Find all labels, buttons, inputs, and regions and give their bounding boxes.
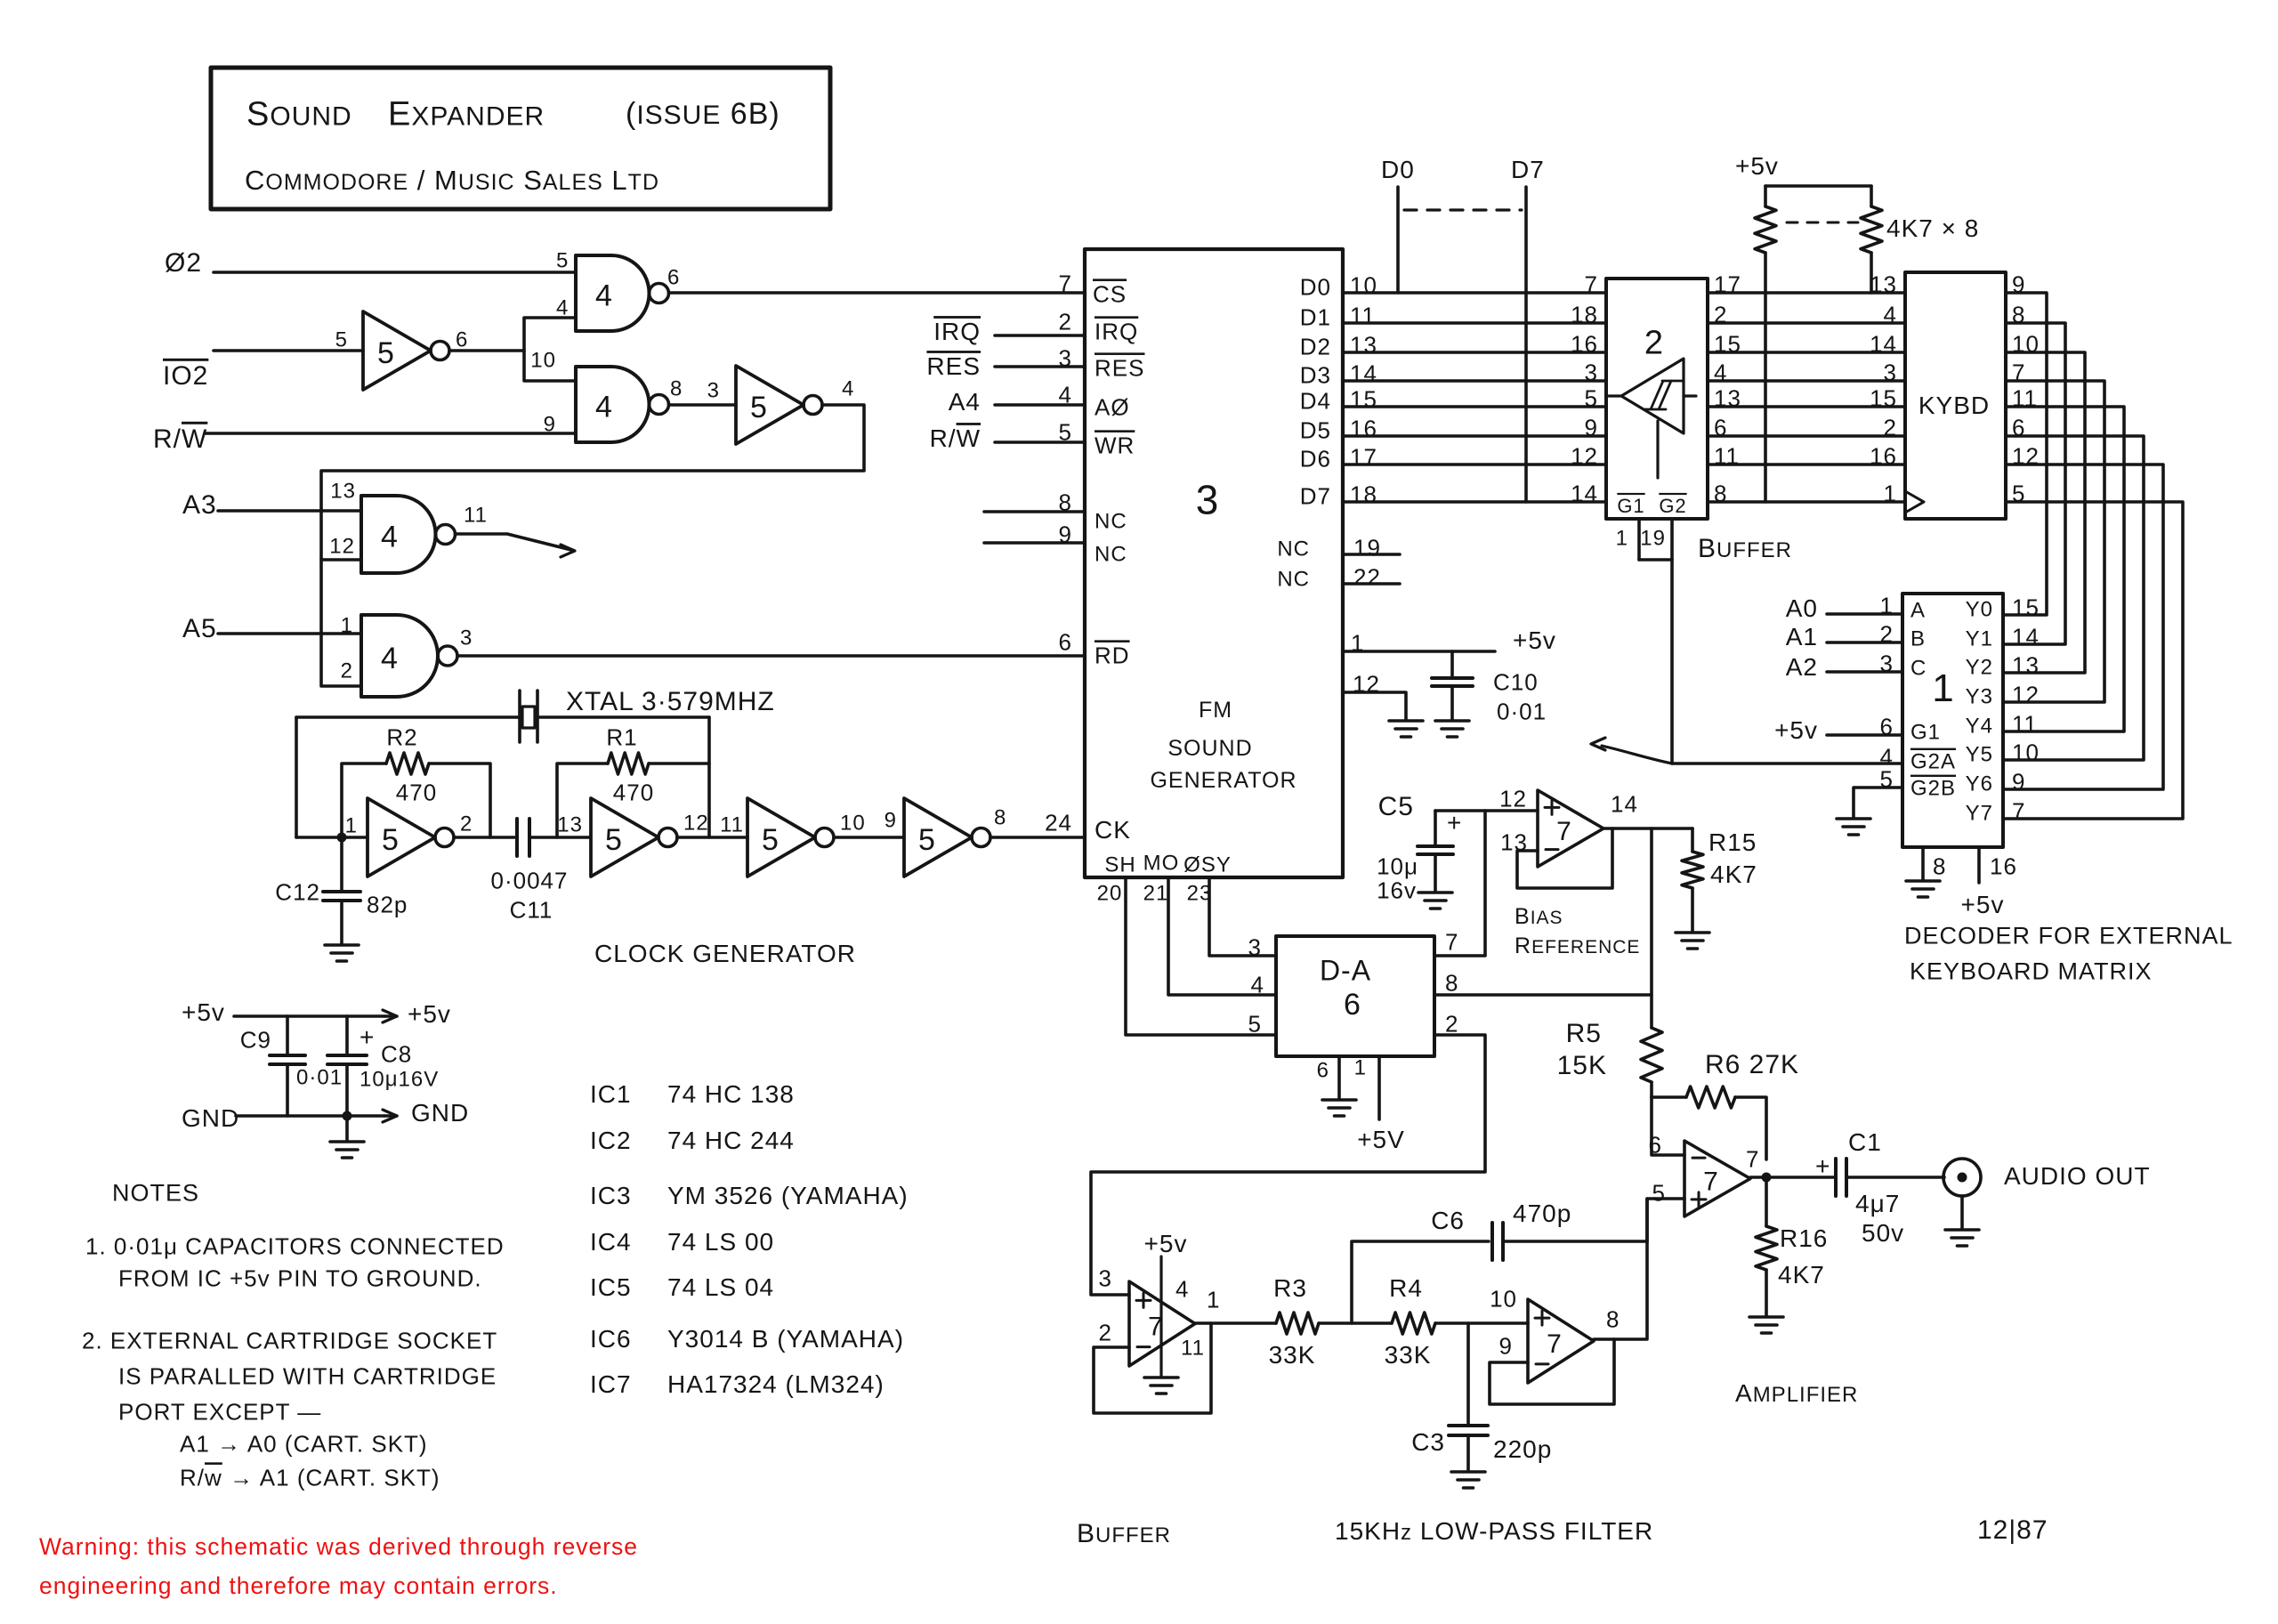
capacitor C12 82p — [340, 837, 343, 890]
dashed link between pullups — [1787, 222, 1858, 224]
wire A3 to U4c pin13 — [218, 509, 361, 513]
buffer pin11 ground — [1144, 1376, 1178, 1379]
svg-text:A1: A1 — [1786, 623, 1818, 650]
svg-text:22: 22 — [1353, 563, 1381, 590]
svg-text:10: 10 — [840, 812, 866, 836]
wire U5b output to WR net and A-gates rail — [321, 405, 864, 686]
connector KYBD body — [1905, 272, 2006, 519]
svg-text:C9: C9 — [240, 1026, 271, 1053]
clock feedback top rail — [296, 715, 520, 719]
wire U5d to U5e — [677, 836, 747, 839]
svg-text:C: C — [1910, 657, 1927, 681]
svg-text:Y5: Y5 — [1966, 743, 1993, 767]
resistor pack 4K7 x8 right — [1870, 186, 1873, 206]
svg-text:2: 2 — [1099, 1319, 1112, 1345]
op-amp U7d amplifier — [1684, 1141, 1750, 1216]
svg-text:IRQ: IRQ — [933, 318, 981, 345]
svg-text:4: 4 — [595, 279, 613, 313]
capacitor C9 0.01 — [286, 1016, 289, 1054]
svg-text:IS PARALLED WITH CARTRIDGE: IS PARALLED WITH CARTRIDGE — [118, 1362, 497, 1389]
inverter U5e — [747, 798, 815, 877]
svg-text:1: 1 — [1616, 527, 1628, 551]
svg-text:5: 5 — [1652, 1179, 1666, 1206]
svg-text:74 LS 04: 74 LS 04 — [667, 1273, 774, 1301]
svg-text:10μ: 10μ — [1377, 852, 1418, 879]
svg-text:IRQ: IRQ — [1095, 318, 1138, 344]
svg-text:AUDIO OUT: AUDIO OUT — [2004, 1162, 2151, 1190]
buffer feedback loop — [1094, 1323, 1211, 1413]
svg-text:5: 5 — [1585, 384, 1598, 411]
wire R5 to amp -input — [1652, 1097, 1684, 1155]
svg-text:5: 5 — [762, 823, 780, 857]
svg-text:Y6: Y6 — [1966, 772, 1993, 796]
wire DA pin2 to buffer opamp +input — [1091, 1035, 1485, 1295]
svg-text:13: 13 — [1870, 271, 1897, 297]
svg-text:15: 15 — [1350, 385, 1377, 412]
capacitor C5 10u 16v — [1434, 811, 1437, 844]
svg-text:74 LS 00: 74 LS 00 — [667, 1228, 774, 1256]
svg-text:IC6: IC6 — [590, 1325, 632, 1353]
wire bias output — [1603, 827, 1692, 830]
wire A5 to U4d pin1 — [218, 632, 361, 635]
svg-text:YM 3526 (YAMAHA): YM 3526 (YAMAHA) — [667, 1182, 909, 1209]
svg-text:5: 5 — [918, 823, 936, 857]
svg-text:REFERENCE: REFERENCE — [1515, 933, 1640, 958]
svg-text:1: 1 — [1354, 1056, 1367, 1080]
wire U5c out to C11 — [454, 836, 514, 839]
resistor R2 470 feedback — [342, 764, 386, 837]
svg-text:D5: D5 — [1300, 416, 1331, 443]
svg-text:A4: A4 — [949, 388, 981, 416]
svg-text:4μ7: 4μ7 — [1855, 1190, 1900, 1217]
svg-text:R6 27K: R6 27K — [1705, 1050, 1799, 1079]
svg-text:0·01: 0·01 — [296, 1066, 343, 1090]
crystal XTAL 3.579MHz — [518, 691, 521, 742]
svg-text:10: 10 — [1490, 1285, 1517, 1312]
svg-text:Warning: this schematic was de: Warning: this schematic was derived thro… — [39, 1533, 638, 1560]
buffer enable pins 1 and 19 — [1637, 519, 1641, 560]
svg-text:NC: NC — [1095, 510, 1127, 534]
wire C1 to audio jack — [1846, 1176, 1944, 1179]
NAND U4b (74LS00) — [576, 367, 650, 442]
wire MO pin21 to DA pin4 — [1168, 877, 1276, 995]
svg-text:14: 14 — [2012, 623, 2040, 650]
svg-text:R/W: R/W — [930, 424, 981, 452]
svg-text:14: 14 — [1571, 480, 1598, 506]
wire left rail to node 1 — [296, 836, 368, 839]
svg-text:11: 11 — [1181, 1337, 1205, 1361]
svg-text:8: 8 — [670, 377, 683, 401]
svg-text:+5v: +5v — [182, 998, 225, 1026]
svg-text:5: 5 — [1248, 1010, 1262, 1037]
svg-text:SOUND: SOUND — [1167, 736, 1252, 761]
svg-text:16: 16 — [1350, 415, 1377, 441]
NAND U4c (74LS00) — [361, 496, 436, 573]
svg-text:82p: 82p — [367, 891, 408, 917]
resistor R6 27K feedback — [1652, 1095, 1686, 1099]
svg-text:R5: R5 — [1566, 1019, 1602, 1048]
svg-text:D7: D7 — [1511, 156, 1545, 183]
svg-text:IC4: IC4 — [590, 1228, 632, 1256]
svg-text:D3: D3 — [1300, 361, 1331, 388]
wire buffer enable to decoder G2A — [1670, 560, 1674, 764]
svg-text:FROM IC +5v PIN TO GROUND: FROM IC +5v PIN TO GROUND. — [118, 1264, 482, 1291]
inverter U5f — [904, 798, 972, 877]
svg-text:13: 13 — [330, 480, 356, 504]
op-amp U7a bias reference — [1538, 790, 1603, 867]
svg-text:8: 8 — [994, 806, 1006, 830]
wire bias +input pin12 — [1435, 809, 1538, 812]
svg-text:14: 14 — [1350, 360, 1377, 386]
svg-text:9: 9 — [1499, 1332, 1513, 1359]
pullup rail — [1765, 184, 1871, 188]
svg-text:5: 5 — [335, 328, 348, 352]
svg-text:4: 4 — [842, 377, 854, 401]
wires KYBD to decoder Y outputs — [2003, 293, 2047, 615]
svg-text:7: 7 — [1585, 271, 1598, 297]
wire phi2 to U4a pin5 — [214, 271, 576, 274]
svg-text:GENERATOR: GENERATOR — [1150, 768, 1297, 793]
svg-text:ØSY: ØSY — [1183, 853, 1232, 877]
svg-text:220p: 220p — [1493, 1435, 1552, 1463]
wire filter out to amp +input — [1594, 1199, 1647, 1339]
svg-text:KYBD: KYBD — [1919, 392, 1990, 419]
svg-text:2: 2 — [341, 659, 353, 683]
svg-text:5: 5 — [377, 336, 395, 370]
svg-text:6: 6 — [1317, 1059, 1329, 1083]
svg-text:4: 4 — [381, 642, 399, 675]
svg-text:50v: 50v — [1862, 1219, 1904, 1247]
svg-text:+5v: +5v — [1774, 716, 1818, 744]
svg-text:7: 7 — [1746, 1145, 1759, 1172]
svg-text:16v: 16v — [1377, 877, 1417, 903]
svg-text:9: 9 — [1585, 414, 1598, 440]
wire SH pin20 to DA pin5 — [1126, 877, 1276, 1035]
svg-text:18: 18 — [1350, 481, 1377, 507]
svg-text:+: + — [359, 1023, 375, 1051]
svg-text:12: 12 — [683, 812, 709, 836]
svg-text:1. 0·01μ CAPACITORS CONNECT: 1. 0·01μ CAPACITORS CONNECTED — [85, 1232, 505, 1259]
svg-text:4: 4 — [1251, 971, 1264, 998]
wire bias to R5 — [1650, 828, 1653, 1028]
svg-text:3: 3 — [1099, 1264, 1112, 1291]
svg-text:PORT EXCEPT —: PORT EXCEPT — — [118, 1398, 321, 1425]
svg-text:15: 15 — [1870, 384, 1897, 411]
svg-text:15: 15 — [2012, 594, 2040, 620]
svg-text:Y2: Y2 — [1966, 656, 1993, 680]
svg-text:G2B: G2B — [1910, 777, 1956, 801]
audio out jack — [1943, 1159, 1981, 1196]
svg-text:5: 5 — [382, 823, 400, 857]
svg-text:1: 1 — [1207, 1286, 1220, 1313]
svg-text:19: 19 — [1353, 534, 1381, 561]
svg-text:EXPANDER: EXPANDER — [388, 96, 545, 133]
svg-text:R15: R15 — [1708, 828, 1757, 856]
svg-text:D-A: D-A — [1320, 955, 1371, 987]
svg-text:A0: A0 — [1786, 594, 1818, 622]
svg-text:Y4: Y4 — [1966, 715, 1993, 739]
svg-text:4K7: 4K7 — [1710, 860, 1757, 888]
decoder pin 8 ground — [1921, 847, 1925, 879]
svg-text:12: 12 — [1571, 442, 1598, 469]
svg-text:5: 5 — [556, 249, 569, 273]
svg-text:470: 470 — [396, 779, 437, 805]
svg-text:C10: C10 — [1493, 668, 1539, 695]
svg-text:13: 13 — [1350, 331, 1377, 358]
svg-text:G1: G1 — [1617, 495, 1644, 517]
svg-text:A: A — [1910, 599, 1926, 623]
svg-text:8: 8 — [1445, 969, 1458, 996]
svg-text:18: 18 — [1571, 301, 1598, 327]
svg-text:Y0: Y0 — [1966, 598, 1993, 622]
IC3 NC pin 9 stub — [984, 541, 1085, 545]
wire IO2 to U5a input — [214, 349, 363, 352]
svg-text:2: 2 — [1884, 414, 1897, 440]
wire stub to U4c pin12 — [321, 558, 361, 562]
svg-text:4: 4 — [381, 521, 399, 554]
svg-text:R/W: R/W — [153, 424, 207, 454]
svg-text:KEYBOARD MATRIX: KEYBOARD MATRIX — [1910, 958, 2153, 985]
title box — [211, 68, 830, 209]
IC U2 74HC244 buffer body — [1606, 279, 1708, 519]
svg-text:6: 6 — [667, 266, 680, 290]
buffer schmitt symbol — [1621, 359, 1684, 433]
svg-text:1: 1 — [1884, 480, 1897, 506]
svg-text:R/w → A1 (CART. SKT): R/w → A1 (CART. SKT) — [180, 1464, 440, 1491]
resistor R5 15K — [1641, 1028, 1662, 1082]
svg-text:16: 16 — [1571, 330, 1598, 357]
resistor pack 4K7 x8 left — [1764, 186, 1767, 206]
svg-text:2: 2 — [1059, 308, 1072, 335]
wire U5e to U5f — [834, 836, 904, 839]
svg-text:D0: D0 — [1381, 156, 1415, 183]
inverter U5d — [591, 798, 658, 877]
svg-text:GND: GND — [411, 1099, 469, 1127]
svg-text:74 HC 138: 74 HC 138 — [667, 1080, 795, 1108]
svg-text:12: 12 — [1499, 785, 1527, 812]
svg-text:33K: 33K — [1269, 1341, 1316, 1369]
svg-text:CS: CS — [1093, 280, 1127, 307]
svg-text:0·01: 0·01 — [1497, 698, 1547, 724]
capacitor C11 0.0047 — [515, 819, 519, 856]
svg-text:9: 9 — [885, 809, 897, 833]
svg-text:A1 → A0 (CART. SKT): A1 → A0 (CART. SKT) — [180, 1430, 428, 1457]
svg-text:4: 4 — [595, 391, 613, 424]
IC U3 YM3526 FM sound generator body — [1085, 249, 1343, 877]
svg-text:11: 11 — [464, 504, 488, 528]
wire U4a output to IC3 CS pin 7 — [669, 291, 1086, 295]
svg-text:8: 8 — [1933, 852, 1946, 879]
svg-text:6: 6 — [1344, 988, 1361, 1022]
decoder pin 16 +5v — [1977, 847, 1981, 883]
svg-text:12: 12 — [329, 535, 355, 559]
svg-text:7: 7 — [1445, 928, 1458, 955]
wire U4b output to U5b input — [669, 403, 737, 407]
svg-text:G1: G1 — [1910, 721, 1941, 745]
svg-text:11: 11 — [1350, 302, 1376, 328]
svg-text:470: 470 — [613, 779, 654, 805]
svg-text:C6: C6 — [1431, 1207, 1465, 1234]
svg-text:1: 1 — [345, 814, 358, 838]
capacitor C10 0.01 — [1450, 651, 1454, 676]
svg-text:20: 20 — [1097, 882, 1123, 906]
svg-text:R16: R16 — [1780, 1224, 1828, 1252]
svg-text:CLOCK GENERATOR: CLOCK GENERATOR — [594, 940, 856, 967]
svg-text:C3: C3 — [1411, 1428, 1445, 1456]
wire DA pin8 to R5 top — [1434, 993, 1652, 997]
capacitor C8 10u16V electrolytic — [345, 1016, 349, 1054]
bus wires buffer to KYBD — [1708, 291, 1905, 295]
DA pin1 +5v — [1377, 1056, 1381, 1119]
svg-text:BIAS: BIAS — [1515, 904, 1563, 929]
svg-text:16: 16 — [1870, 442, 1897, 469]
svg-text:10μ16V: 10μ16V — [359, 1068, 439, 1092]
svg-text:16: 16 — [1990, 852, 2017, 879]
svg-text:12: 12 — [2012, 681, 2040, 707]
wire R/W to U4b pin9 — [205, 432, 576, 435]
svg-text:Y1: Y1 — [1966, 627, 1993, 651]
svg-text:R2: R2 — [386, 723, 417, 750]
capacitor C6 470p loop — [1352, 1241, 1489, 1323]
svg-text:IC3: IC3 — [590, 1182, 632, 1209]
svg-text:0·0047: 0·0047 — [491, 867, 569, 893]
svg-text:33K: 33K — [1385, 1341, 1432, 1369]
wire G2B to ground — [1854, 788, 1902, 817]
wire G2A with arrow — [1672, 762, 1902, 765]
svg-text:NC: NC — [1277, 537, 1310, 562]
junction node at U5c input — [337, 833, 347, 843]
svg-text:+5v: +5v — [408, 1000, 451, 1028]
wire OSY pin23 to DA pin3 — [1209, 877, 1276, 956]
svg-text:74 HC 244: 74 HC 244 — [667, 1127, 795, 1154]
svg-text:5: 5 — [605, 823, 623, 857]
svg-text:10: 10 — [530, 349, 556, 373]
svg-text:2. EXTERNAL CARTRIDGE SOCKE: 2. EXTERNAL CARTRIDGE SOCKET — [82, 1327, 497, 1353]
svg-text:C1: C1 — [1848, 1128, 1882, 1156]
KYBD clock mark pin1 — [1905, 491, 1924, 513]
inverter U5a (74LS04) — [363, 311, 431, 390]
svg-text:24: 24 — [1045, 809, 1072, 836]
IC U6 Y3014B D-A body — [1276, 936, 1434, 1056]
wire R3 to R4 — [1319, 1321, 1392, 1325]
svg-text:HA17324 (LM324): HA17324 (LM324) — [667, 1370, 885, 1398]
svg-text:IO2: IO2 — [163, 361, 208, 391]
svg-text:D0: D0 — [1300, 273, 1331, 300]
svg-text:G2: G2 — [1659, 495, 1686, 517]
svg-text:7: 7 — [1059, 270, 1072, 296]
svg-text:R1: R1 — [606, 723, 637, 750]
svg-text:IC7: IC7 — [590, 1370, 632, 1398]
resistor R4 33K — [1392, 1313, 1435, 1334]
svg-text:+: + — [1815, 1152, 1830, 1180]
svg-text:engineering and therefore may: engineering and therefore may contain er… — [39, 1572, 558, 1599]
svg-text:(ISSUE 6B): (ISSUE 6B) — [626, 97, 780, 131]
svg-text:6: 6 — [456, 328, 468, 352]
capacitor C3 220p — [1466, 1323, 1470, 1424]
svg-text:D4: D4 — [1300, 387, 1331, 414]
IC U1 74HC138 decoder body — [1902, 594, 2003, 847]
svg-text:7: 7 — [1547, 1329, 1563, 1359]
svg-text:9: 9 — [544, 413, 556, 437]
svg-text:NC: NC — [1095, 543, 1127, 567]
svg-text:3: 3 — [460, 626, 473, 650]
op-amp U7c filter — [1528, 1299, 1594, 1383]
svg-text:DECODER FOR EXTERNAL: DECODER FOR EXTERNAL — [1904, 923, 2234, 949]
svg-text:5: 5 — [750, 391, 768, 424]
svg-text:2: 2 — [460, 812, 473, 836]
resistor R1 470 feedback — [557, 764, 608, 837]
svg-text:D6: D6 — [1300, 445, 1331, 472]
svg-text:1: 1 — [341, 614, 353, 638]
svg-text:D7: D7 — [1300, 482, 1331, 509]
NAND U4d (74LS00) — [361, 615, 438, 697]
svg-text:IC1: IC1 — [590, 1080, 632, 1108]
svg-text:Y3: Y3 — [1966, 685, 1993, 709]
svg-text:A5: A5 — [182, 614, 217, 643]
svg-text:9: 9 — [2012, 768, 2025, 795]
svg-text:19: 19 — [1640, 527, 1666, 551]
svg-text:1: 1 — [1932, 667, 1954, 710]
svg-text:13: 13 — [557, 813, 583, 837]
svg-text:BUFFER: BUFFER — [1698, 534, 1792, 563]
bias feedback loop — [1517, 828, 1612, 888]
svg-text:10: 10 — [1350, 271, 1377, 298]
op-amp U7b buffer — [1129, 1281, 1195, 1366]
svg-text:3: 3 — [1884, 359, 1897, 385]
svg-text:11: 11 — [2012, 710, 2038, 737]
svg-text:+5v: +5v — [1513, 626, 1556, 654]
svg-text:CK: CK — [1095, 816, 1131, 844]
svg-text:SOUND: SOUND — [246, 96, 352, 133]
svg-text:4K7: 4K7 — [1778, 1261, 1825, 1289]
svg-text:MO: MO — [1143, 852, 1180, 876]
svg-text:NOTES: NOTES — [112, 1180, 199, 1207]
resistor R16 4K7 — [1765, 1177, 1768, 1226]
inverter U5b (74LS04) — [736, 366, 804, 444]
svg-text:15KHz LOW-PASS FILTER: 15KHz LOW-PASS FILTER — [1335, 1517, 1653, 1545]
svg-text:4K7 × 8: 4K7 × 8 — [1886, 214, 1979, 242]
svg-text:3: 3 — [1585, 359, 1598, 385]
svg-text:3: 3 — [1196, 477, 1220, 523]
svg-text:+5v: +5v — [1961, 891, 2005, 918]
svg-text:G2A: G2A — [1910, 750, 1956, 774]
svg-text:Ø2: Ø2 — [165, 248, 202, 278]
wire amp +input — [1647, 1199, 1684, 1241]
svg-text:RES: RES — [1095, 354, 1144, 381]
svg-text:B: B — [1910, 627, 1926, 651]
svg-text:17: 17 — [1350, 443, 1377, 470]
svg-text:4: 4 — [1175, 1275, 1189, 1302]
svg-text:RD: RD — [1095, 642, 1130, 668]
filter feedback loop — [1490, 1339, 1614, 1404]
svg-text:3: 3 — [1248, 933, 1262, 960]
svg-text:AMPLIFIER: AMPLIFIER — [1735, 1379, 1858, 1407]
svg-text:WR: WR — [1095, 432, 1135, 458]
svg-text:IC2: IC2 — [590, 1127, 632, 1154]
svg-text:R3: R3 — [1273, 1274, 1307, 1302]
wire U5f out to IC3 CK pin 24 — [990, 836, 1085, 839]
junction dot and ground symbol — [343, 1111, 352, 1121]
svg-text:470p: 470p — [1513, 1200, 1571, 1227]
svg-text:+: + — [1447, 809, 1462, 836]
svg-text:D1: D1 — [1300, 303, 1331, 330]
svg-text:A2: A2 — [1786, 653, 1818, 681]
wire buffer out to R3 — [1195, 1321, 1276, 1325]
svg-text:RES: RES — [926, 352, 981, 380]
wire R4 to filter +input — [1435, 1321, 1528, 1325]
svg-text:7: 7 — [1703, 1167, 1719, 1196]
svg-text:SH: SH — [1104, 853, 1135, 877]
